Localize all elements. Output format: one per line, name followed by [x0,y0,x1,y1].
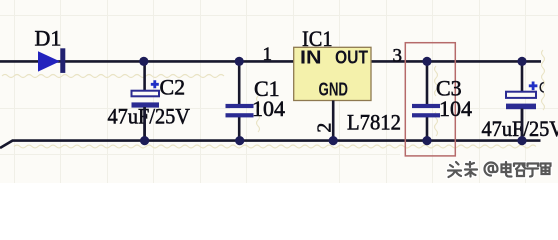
svg-text:L7812: L7812 [347,110,401,135]
node: junction top C1 [235,57,244,66]
value 104 (C1) [252,96,285,121]
wire: bottom ground rail [0,141,541,148]
wire: C4 vertical top [521,61,524,92]
wire: C3 vertical top [426,61,429,104]
node: junction top C2 [139,57,148,66]
pin name OUT [335,48,368,68]
node: junction bottom C2 [140,136,149,145]
wire: C1 vertical top [238,61,241,104]
pin number 2 (rotated) [314,123,336,133]
wire: top rail left segment [0,60,294,63]
wire: C3 vertical bottom [426,117,429,141]
wire: C2 vertical bottom [143,107,146,141]
node: junction bottom C1 [235,136,244,145]
artifact waves [2,50,545,148]
faint grid [0,0,558,183]
highlight box around C3 [405,43,455,156]
capacitor C4 (polarized, right edge) [506,82,537,110]
pin name IN [300,48,322,68]
wire: top rail right segment (OUT to right end) [371,60,541,63]
node: junction top C4 [517,57,526,66]
value 47uF/25V [108,104,191,129]
label C2 [160,75,186,100]
svg-text:GND: GND [319,79,349,99]
node: junction bottom C4 [517,136,526,145]
wire: GND pin vertical [332,101,335,141]
label C3 [436,76,462,101]
svg-text:C2: C2 [160,75,186,100]
pin number 1 [263,44,273,65]
value 47uF/25V (C4, clipped) [482,116,558,141]
capacitor C1 [226,104,254,117]
label C1 [254,76,280,101]
value L7812 [347,110,401,135]
capacitor C2 (polarized) [132,80,160,107]
node: junction top C3 [422,57,431,66]
diode D1 [38,48,65,73]
svg-text:OUT: OUT [335,48,368,68]
svg-text:IN: IN [300,48,322,68]
value 104 (C3) [439,96,472,121]
wire: C4 vertical bottom [521,109,524,141]
pin number 3 [393,46,403,67]
wire: C2 lead over text [143,107,146,141]
wire: C1 vertical bottom [238,117,241,141]
label D1 [35,26,62,51]
wire: C4 lead over text [521,109,524,141]
svg-text:D1: D1 [35,26,62,51]
node: junction bottom C3 [422,136,431,145]
node: junction GND pin [329,136,338,145]
svg-text:2: 2 [314,123,336,133]
watermark: toutiao @ dianrong yuzhou [448,162,551,177]
label C4 (partially visible C) [540,83,544,93]
label IC1 [302,26,333,51]
svg-text:3: 3 [393,46,403,67]
pin name GND [319,79,349,99]
svg-text:47uF/25V: 47uF/25V [108,104,191,129]
op-amp U1: regulator body IC1 [294,47,371,100]
svg-text:104: 104 [439,96,472,121]
capacitor C3 [412,104,440,117]
svg-text:1: 1 [263,44,273,65]
wire: C2 vertical top [143,61,146,91]
svg-text:104: 104 [252,96,285,121]
